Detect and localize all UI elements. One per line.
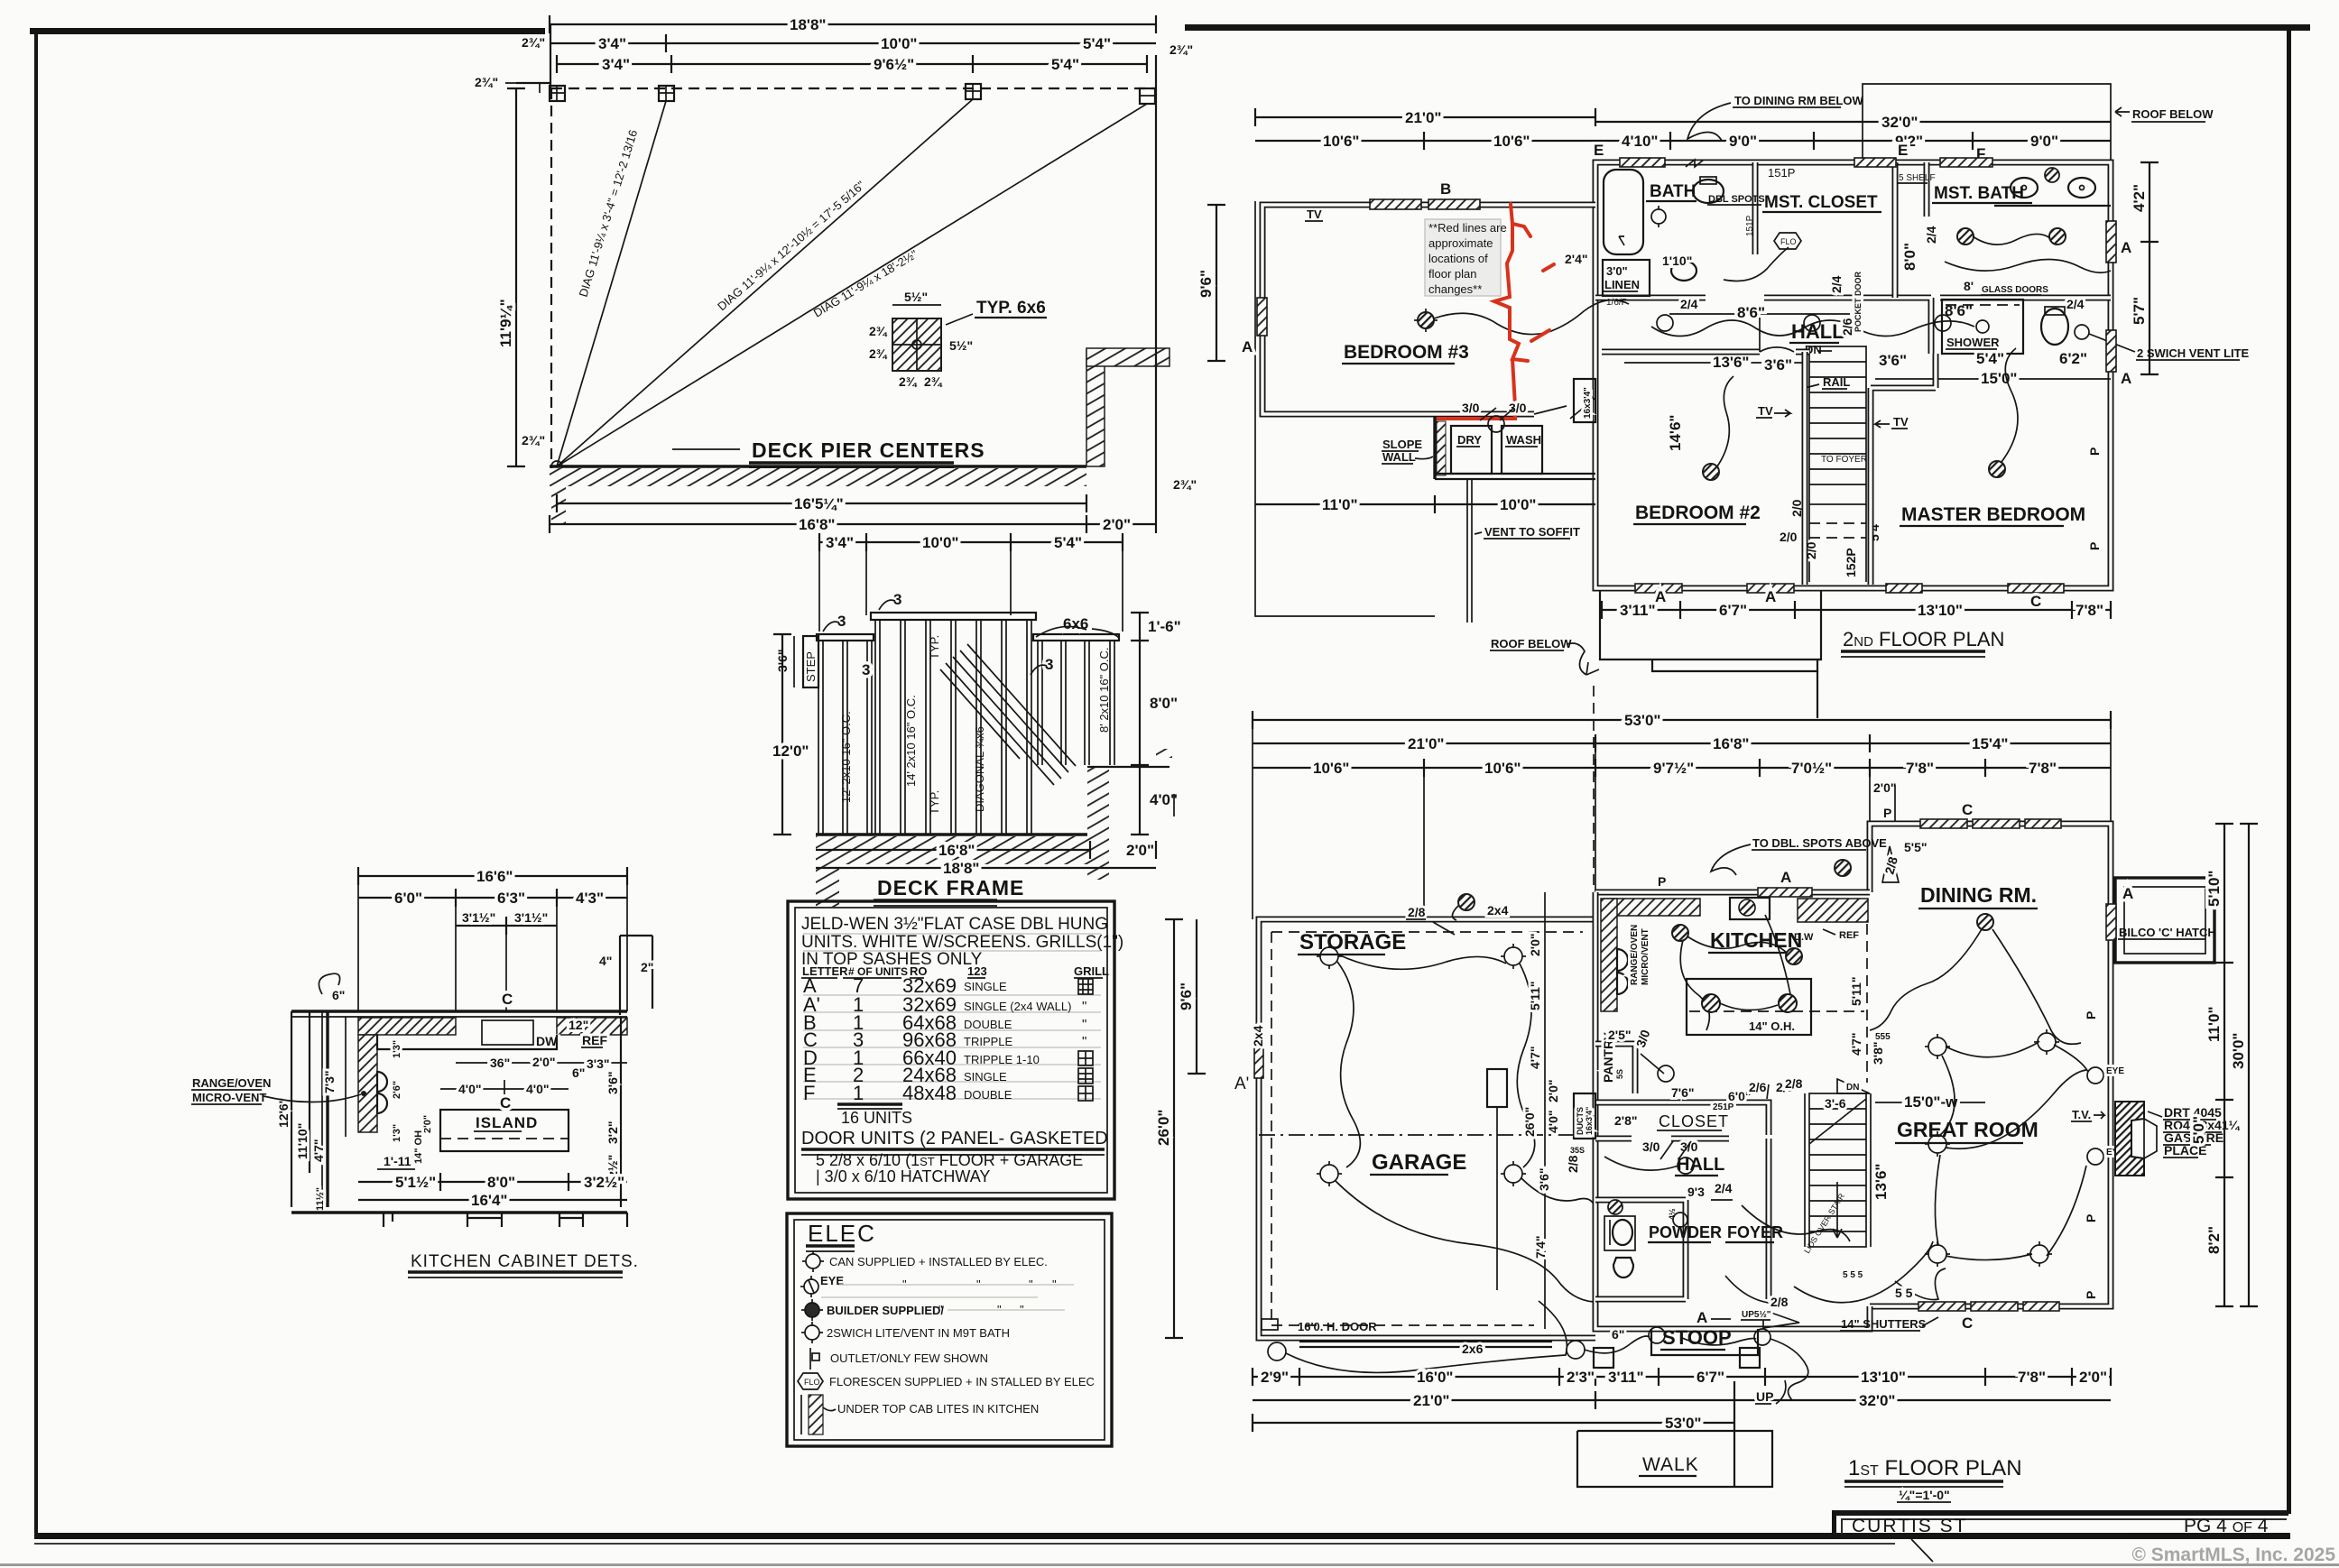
washer box	[1502, 426, 1542, 474]
bottom dim 16'4	[358, 1199, 627, 1201]
svg-text:2¾: 2¾	[924, 374, 943, 389]
svg-text:13'6": 13'6"	[1713, 354, 1749, 371]
svg-text:2'0": 2'0"	[1546, 1079, 1560, 1102]
svg-text:6'7": 6'7"	[1719, 602, 1747, 619]
red note text	[1428, 221, 1507, 296]
svg-text:14" SHUTTERS: 14" SHUTTERS	[1841, 1317, 1927, 1331]
svg-text:2'0": 2'0"	[1126, 842, 1154, 859]
svg-text:2¾: 2¾	[899, 374, 918, 389]
svg-text:2¾": 2¾"	[522, 433, 545, 447]
powder light	[1608, 1200, 1623, 1214]
underline CURTIS ST	[1844, 1534, 2128, 1536]
svg-text:15'0"-w: 15'0"-w	[1904, 1093, 1958, 1111]
storage can lights	[1320, 947, 1522, 1183]
svg-text:7'0½": 7'0½"	[1791, 760, 1832, 777]
dashed kitchen boundary	[1866, 924, 1868, 1083]
svg-text:11'10": 11'10"	[295, 1123, 310, 1159]
window left wall garage	[1254, 1042, 1263, 1078]
svg-text:5'4": 5'4"	[1054, 534, 1082, 551]
right ground hatch column	[1087, 767, 1109, 880]
svg-text:5'10": 5'10"	[2205, 871, 2223, 907]
svg-text:2'5": 2'5"	[1608, 1028, 1632, 1042]
right dim 4'2 5'7	[2149, 162, 2150, 374]
svg-text:3'-6: 3'-6	[1825, 1096, 1846, 1111]
svg-text:13'10": 13'10"	[1861, 1369, 1906, 1386]
closet fluorescent hexagon	[1774, 233, 1801, 249]
island dims 4'0 4'0	[440, 1088, 569, 1090]
island	[1687, 979, 1811, 1035]
svg-text:2x4: 2x4	[1487, 903, 1509, 918]
svg-text:TYP.: TYP.	[928, 635, 941, 659]
svg-text:3'1½": 3'1½"	[462, 910, 495, 925]
svg-text:C: C	[1962, 801, 1973, 818]
svg-text:3'0": 3'0"	[1606, 264, 1628, 278]
right dim stack	[620, 1017, 622, 1207]
svg-text:2¾": 2¾"	[1169, 42, 1193, 57]
powder toilet	[1613, 1258, 1633, 1277]
mst toilet	[2041, 309, 2068, 345]
svg-text:8'0": 8'0"	[1150, 695, 1178, 712]
svg-text:6'0": 6'0"	[1728, 1089, 1752, 1103]
svg-text:4'0": 4'0"	[458, 1082, 482, 1096]
ducts box	[1574, 1093, 1595, 1139]
svg-text:16 UNITS: 16 UNITS	[841, 1109, 912, 1127]
dimension row 3'4" 9'6½" 5'4"	[557, 63, 1147, 65]
schedule box outer	[788, 901, 1114, 1199]
svg-text:2'0": 2'0"	[1528, 933, 1542, 956]
bilco hatch inner	[2124, 887, 2205, 954]
wire mst bath	[1973, 234, 2050, 244]
svg-text:21'0": 21'0"	[1413, 1392, 1449, 1409]
top dim 21'0 left block	[1255, 116, 1595, 118]
svg-text:2'6": 2'6"	[392, 1081, 402, 1099]
svg-text:A: A	[1242, 338, 1253, 355]
roof below outline between floors	[1600, 590, 1821, 659]
svg-text:12' 2x10 16" O.C.: 12' 2x10 16" O.C.	[839, 711, 853, 803]
left top plate	[817, 634, 874, 641]
interior wall bath/mstcloset vertical	[1755, 162, 1927, 298]
svg-text:floor plan: floor plan	[1428, 267, 1476, 281]
svg-text:5'4": 5'4"	[1051, 56, 1079, 73]
svg-text:C: C	[2030, 593, 2041, 610]
svg-text:UNDER TOP CAB LITES IN KITCHEN: UNDER TOP CAB LITES IN KITCHEN	[837, 1402, 1039, 1416]
dim 8'6 8'6 hall	[1669, 313, 1850, 315]
svg-text:TV: TV	[1307, 208, 1322, 221]
svg-text:3/0: 3/0	[1462, 401, 1480, 415]
svg-text:13'10": 13'10"	[1918, 602, 1963, 619]
svg-text:2x4: 2x4	[1251, 1025, 1265, 1047]
svg-text:": "	[1082, 999, 1086, 1014]
garage inner dashed	[1271, 932, 1583, 1325]
ground hatch left deep	[816, 864, 839, 907]
kitchen sink	[1730, 898, 1770, 919]
svg-text:3'3": 3'3"	[587, 1056, 610, 1071]
svg-text:9'0": 9'0"	[2030, 133, 2058, 150]
toilet vent light	[2075, 325, 2089, 339]
svg-text:1'-6": 1'-6"	[1148, 618, 1181, 635]
svg-text:10'0": 10'0"	[881, 35, 917, 52]
left wall double	[326, 1011, 328, 1207]
svg-text:RANGE/OVEN: RANGE/OVEN	[192, 1076, 271, 1090]
svg-text:10'6": 10'6"	[1493, 133, 1530, 150]
door swing bedroom2	[1760, 318, 1794, 352]
svg-text:3'4": 3'4"	[602, 56, 630, 73]
svg-text:SLOPE: SLOPE	[1382, 438, 1422, 451]
svg-text:10'6": 10'6"	[1323, 133, 1359, 150]
left dim stack	[291, 1011, 292, 1207]
svg-text:2/8: 2/8	[1408, 905, 1426, 919]
vent line down	[1466, 479, 1468, 623]
svg-text:1'-11": 1'-11"	[384, 1154, 417, 1168]
svg-text:5'7": 5'7"	[2131, 297, 2148, 325]
upper cabinets hatched L	[358, 1018, 456, 1035]
svg-text:5½": 5½"	[904, 290, 928, 304]
svg-text:5'4": 5'4"	[1083, 35, 1111, 52]
svg-text:3'8": 3'8"	[1871, 1041, 1885, 1065]
svg-text:2/4: 2/4	[2066, 297, 2085, 311]
svg-text:251P: 251P	[1713, 1102, 1734, 1112]
dim 16'6" top	[358, 875, 627, 877]
svg-text:LINEN: LINEN	[1604, 278, 1640, 291]
svg-text:6'0": 6'0"	[394, 890, 422, 907]
svg-text:5'11": 5'11"	[1528, 981, 1542, 1010]
upper cabinets hatched right with REF	[557, 1018, 627, 1035]
window on bedroom3 left wall	[1257, 298, 1267, 336]
svg-text:5'0": 5'0"	[2190, 1116, 2207, 1144]
corner vent 2/8	[1882, 846, 1899, 882]
svg-text:555: 555	[1875, 1032, 1891, 1042]
island	[440, 1110, 569, 1151]
svg-text:12": 12"	[569, 1018, 588, 1032]
dashed layout rectangle top	[551, 88, 1156, 89]
underline PG 4 of 4	[2182, 1534, 2267, 1536]
top dim 21'0 16'8 15'4	[1253, 742, 2111, 744]
svg-text:ISLAND: ISLAND	[476, 1114, 538, 1131]
svg-text:TO FOYER: TO FOYER	[1821, 455, 1867, 465]
svg-text:¼"=1'-0": ¼"=1'-0"	[1899, 1488, 1950, 1502]
top dim row3	[1253, 767, 2111, 769]
mst bath can lights	[1957, 228, 1974, 244]
left section joists	[818, 641, 872, 835]
garage door opener fixture	[1487, 1069, 1507, 1107]
bottom dim row 5'1½ 8'0 3'2½	[358, 1181, 627, 1183]
svg-text:OUTLET/ONLY FEW SHOWN: OUTLET/ONLY FEW SHOWN	[830, 1351, 988, 1365]
svg-text:STORAGE: STORAGE	[1299, 930, 1406, 955]
svg-text:2¾": 2¾"	[522, 35, 545, 50]
svg-text:MST. BATH: MST. BATH	[1934, 184, 2024, 203]
window on bedroom3 top wall	[1370, 199, 1421, 209]
svg-text:3'4": 3'4"	[598, 35, 626, 52]
svg-text:4'0": 4'0"	[526, 1082, 550, 1096]
pier post 3	[966, 84, 981, 99]
svg-text:5 2/8 x 6/10 (1ST FLOOR + GA: 5 2/8 x 6/10 (1ST FLOOR + GARAGE	[816, 1151, 1083, 1169]
svg-text:": "	[1082, 1034, 1086, 1049]
laundry area below bedroom3	[1435, 417, 1444, 479]
ground line	[816, 833, 1090, 835]
svg-text:7'8": 7'8"	[2018, 1369, 2046, 1386]
svg-text:P: P	[2084, 1011, 2098, 1019]
schedule box inner	[795, 908, 1107, 1193]
svg-text:DOUBLE: DOUBLE	[964, 1018, 1012, 1031]
page border right	[2287, 24, 2291, 1514]
page border bottom	[34, 1533, 2290, 1539]
dim row 3'1½ 3'1½	[456, 925, 557, 927]
central section joists	[875, 620, 1031, 835]
diagonal brace line 3	[557, 104, 1147, 466]
windows bottom wall great room	[1918, 1302, 1965, 1311]
svg-text:1'10": 1'10"	[1662, 254, 1692, 268]
svg-text:DN: DN	[1846, 1083, 1859, 1093]
svg-text:P: P	[2087, 542, 2102, 550]
svg-text:REF: REF	[1839, 930, 1859, 941]
svg-text:EYE: EYE	[2106, 1066, 2124, 1076]
svg-text:2'9": 2'9"	[1261, 1369, 1289, 1386]
vertical dimension 11'9¼"	[515, 88, 517, 466]
svg-text:© SmartMLS, Inc. 2025: © SmartMLS, Inc. 2025	[2131, 1545, 2335, 1565]
svg-text:18'8": 18'8"	[790, 16, 826, 33]
right dim column 5'10 11'0 5'0 8'2 30'0	[2223, 824, 2225, 1306]
svg-text:3'1½": 3'1½"	[514, 910, 548, 925]
svg-text:A': A'	[1234, 1075, 1249, 1093]
right step structure hatched vertical	[1086, 350, 1105, 466]
svg-text:53'0": 53'0"	[1624, 712, 1660, 729]
svg-text:6'7": 6'7"	[1696, 1369, 1724, 1386]
step box	[803, 636, 818, 687]
svg-text:7'6": 7'6"	[1671, 1085, 1695, 1100]
svg-text:21'0": 21'0"	[1408, 735, 1444, 752]
dimension row 3'4" 10'0" 5'4"	[550, 42, 1156, 44]
svg-text:DRY: DRY	[1457, 433, 1482, 447]
svg-text:2/6: 2/6	[1749, 1080, 1767, 1094]
sink rect	[482, 1020, 533, 1045]
stray diagonal mark below walk	[1911, 1539, 1933, 1562]
can lights hall row	[1657, 315, 1951, 331]
svg-text:A: A	[1655, 588, 1666, 605]
svg-text:ROOF BELOW: ROOF BELOW	[1491, 637, 1572, 650]
svg-text:P: P	[2084, 1291, 2098, 1299]
svg-text:6'3": 6'3"	[497, 890, 525, 907]
svg-text:DECK FRAME: DECK FRAME	[877, 876, 1024, 899]
svg-text:TRIPPLE 1-10: TRIPPLE 1-10	[964, 1053, 1040, 1066]
svg-text:SINGLE: SINGLE	[964, 1070, 1007, 1084]
svg-text:UP5½": UP5½"	[1742, 1310, 1771, 1320]
dim 9'6 left rotated	[1216, 205, 1217, 361]
svg-text:BEDROOM #3: BEDROOM #3	[1344, 342, 1469, 363]
svg-text:A: A	[1696, 1309, 1707, 1326]
svg-text:4'3": 4'3"	[576, 890, 604, 907]
step dim 3'6	[793, 636, 795, 687]
wire dining to great room	[1992, 929, 2081, 1044]
dryer box	[1451, 426, 1492, 474]
svg-text:2/4: 2/4	[1680, 297, 1698, 311]
svg-text:5'1½": 5'1½"	[395, 1174, 436, 1191]
linen closet	[1603, 260, 1650, 296]
svg-text:9'6": 9'6"	[1178, 982, 1195, 1010]
central top plate	[871, 613, 1036, 620]
svg-text:5½": 5½"	[949, 338, 973, 353]
legend eye symbol	[800, 1276, 818, 1297]
svg-text:5 SHELF: 5 SHELF	[1899, 173, 1936, 183]
svg-text:ROOF BELOW: ROOF BELOW	[2132, 107, 2214, 121]
wires hall	[1651, 320, 1974, 337]
svg-text:16'8": 16'8"	[1713, 735, 1749, 752]
svg-text:TO DINING RM BELOW: TO DINING RM BELOW	[1734, 94, 1863, 107]
svg-text:15'4": 15'4"	[1972, 735, 2008, 752]
svg-text:10'0": 10'0"	[1500, 496, 1536, 513]
svg-text:3'4": 3'4"	[826, 534, 854, 551]
svg-text:12'6": 12'6"	[276, 1098, 291, 1128]
mid dim column	[1544, 892, 1546, 1329]
svg-text:5'11": 5'11"	[1849, 976, 1863, 1006]
svg-text:VENT TO SOFFIT: VENT TO SOFFIT	[1484, 525, 1580, 539]
svg-text:FLORESCEN SUPPLIED + IN STALL: FLORESCEN SUPPLIED + IN STALLED BY ELEC	[829, 1375, 1095, 1388]
svg-text:2'3": 2'3"	[1567, 1369, 1595, 1386]
svg-text:SINGLE: SINGLE	[964, 980, 1007, 993]
svg-text:DECK PIER CENTERS: DECK PIER CENTERS	[752, 438, 985, 462]
faint guide lines	[803, 934, 1101, 1099]
svg-text:2SWICH LITE/VENT IN M9T BATH: 2SWICH LITE/VENT IN M9T BATH	[827, 1326, 1010, 1340]
kitchen counter hatched top	[1604, 899, 1700, 916]
svg-text:RANGE/OVEN: RANGE/OVEN	[1630, 925, 1640, 985]
bedroom2 right wall	[1802, 352, 1808, 585]
dimension line 18'8" top	[550, 23, 1156, 25]
windows top wall dining	[1920, 819, 1967, 828]
svg-text:TYP. 6x6: TYP. 6x6	[976, 299, 1046, 318]
svg-text:11'0": 11'0"	[2205, 1006, 2223, 1042]
svg-text:DUCTS: DUCTS	[1576, 1107, 1585, 1135]
island can lights	[1702, 994, 1720, 1012]
dim 11'0 10'0	[1255, 503, 1595, 505]
right section joists	[1038, 641, 1114, 765]
top dim 4'10 9'0 9'2 9'0	[1595, 140, 2111, 142]
interior wall bath row bottom y330	[1595, 298, 2111, 354]
svg-text:WASH: WASH	[1506, 433, 1541, 447]
door 2/8 wedge at foyer	[1763, 1310, 1799, 1328]
wire foyer to great room	[1794, 1241, 1933, 1303]
svg-text:2¾: 2¾	[869, 346, 888, 361]
shower	[1942, 300, 2023, 354]
svg-text:6": 6"	[572, 1065, 585, 1080]
outlet squares bottom	[1594, 1348, 1613, 1368]
svg-text:STEP: STEP	[804, 651, 818, 682]
mst bath sinks counter	[1994, 205, 2111, 207]
circle fixture between	[1488, 416, 1504, 432]
house left wall and foyer bottom	[1595, 892, 1870, 1329]
powder sink	[1613, 1220, 1632, 1245]
svg-text:9'6½": 9'6½"	[874, 56, 914, 73]
right top plate	[1033, 634, 1119, 641]
svg-text:MST. CLOSET: MST. CLOSET	[1764, 193, 1878, 212]
bottom dim row	[1602, 609, 2111, 611]
wire closet	[1724, 247, 1789, 281]
svg-text:SHOWER: SHOWER	[1946, 336, 2000, 349]
svg-text:2'8": 2'8"	[1614, 1113, 1638, 1128]
ground line	[550, 465, 1086, 467]
svg-text:5 5: 5 5	[1895, 1286, 1913, 1300]
svg-text:4'7": 4'7"	[1849, 1032, 1863, 1056]
svg-text:15'0": 15'0"	[1981, 370, 2017, 387]
windows top wall main	[1620, 158, 1665, 167]
svg-text:8'0": 8'0"	[1901, 243, 1918, 271]
dbl spot can	[1835, 860, 1851, 876]
legend fluorescent symbol	[798, 1373, 823, 1389]
svg-text:6'2": 6'2"	[2059, 350, 2087, 367]
svg-text:GRILL: GRILL	[1074, 964, 1109, 978]
svg-text:2¾": 2¾"	[1173, 477, 1197, 492]
elec box outer	[787, 1213, 1112, 1446]
stair rail diagonal	[1809, 1099, 1866, 1144]
pier detail square hatched	[892, 318, 941, 371]
svg-text:BATH: BATH	[1650, 182, 1696, 201]
dim 15'0	[1875, 378, 2111, 380]
svg-text:KITCHEN CABINET DETS.: KITCHEN CABINET DETS.	[411, 1252, 639, 1271]
16 units total	[837, 1102, 902, 1105]
svg-text:3'6": 3'6"	[1764, 356, 1792, 374]
red branch diagonal	[1531, 264, 1554, 341]
main block outer walls	[1595, 162, 2111, 588]
svg-text:DOOR UNITS (2 PANEL- GASKETED: DOOR UNITS (2 PANEL- GASKETED	[801, 1129, 1108, 1148]
dimension 16'5¼"	[557, 503, 1086, 504]
svg-text:FLO: FLO	[1780, 237, 1797, 246]
svg-text:BUILDER SUPPLIED/: BUILDER SUPPLIED/	[827, 1304, 944, 1317]
svg-text:14" OH: 14" OH	[413, 1130, 424, 1164]
bedroom2 top wall	[1602, 349, 1809, 355]
svg-text:4": 4"	[599, 954, 612, 968]
svg-text:14" O.H.: 14" O.H.	[1749, 1019, 1795, 1033]
svg-text:C: C	[502, 991, 513, 1008]
svg-text:HALL: HALL	[1791, 320, 1844, 343]
dim row 6'0 6'3 4'3	[358, 897, 627, 899]
svg-text:26'0": 26'0"	[1522, 1107, 1537, 1137]
svg-text:5 5 5: 5 5 5	[1843, 1270, 1863, 1280]
svg-text:8'6": 8'6"	[1737, 304, 1765, 321]
svg-text:2¾: 2¾	[869, 324, 888, 338]
svg-text:1/6/F: 1/6/F	[1606, 298, 1627, 308]
top dimension row 3'4 10'0 5'4	[819, 541, 1123, 543]
bath toilet	[1693, 180, 1724, 203]
kitchen wires	[1687, 936, 1787, 953]
svg-text:9'6": 9'6"	[1197, 270, 1215, 298]
top dim 53'0	[1253, 719, 2111, 721]
diagonal brace line 1	[557, 101, 666, 466]
great room can lights	[1928, 1033, 2056, 1263]
svg-text:2/4: 2/4	[1924, 226, 1938, 244]
svg-text:2 SWICH VENT LITE: 2 SWICH VENT LITE	[2137, 346, 2250, 360]
svg-text:GARAGE: GARAGE	[1372, 1150, 1466, 1175]
builder light between sinks	[2045, 168, 2059, 182]
svg-text:2'0": 2'0"	[532, 1055, 556, 1069]
dim 13'6	[1624, 362, 1805, 364]
pantry	[1595, 1044, 1635, 1093]
svg-text:MASTER BEDROOM: MASTER BEDROOM	[1901, 504, 2085, 525]
small hatch top left of plan	[1156, 749, 1172, 758]
svg-text:E: E	[1594, 142, 1604, 159]
page border top-right segment	[1185, 24, 2310, 31]
svg-text:3'11": 3'11"	[1608, 1369, 1644, 1386]
top dim 10'6 10'6	[1255, 140, 1595, 142]
svg-text:TV: TV	[1893, 415, 1909, 429]
bottom wires	[1286, 1301, 1567, 1372]
svg-text:GLASS DOORS: GLASS DOORS	[1982, 285, 2048, 295]
svg-text:3: 3	[837, 613, 846, 630]
svg-text:": "	[938, 1303, 943, 1316]
svg-text:1'3": 1'3"	[392, 1124, 402, 1142]
red note box	[1425, 219, 1501, 296]
svg-text:35S: 35S	[1570, 1146, 1585, 1155]
svg-text:16'4": 16'4"	[471, 1192, 507, 1209]
elec box inner	[794, 1220, 1105, 1440]
svg-text:4'7": 4'7"	[1528, 1046, 1542, 1069]
